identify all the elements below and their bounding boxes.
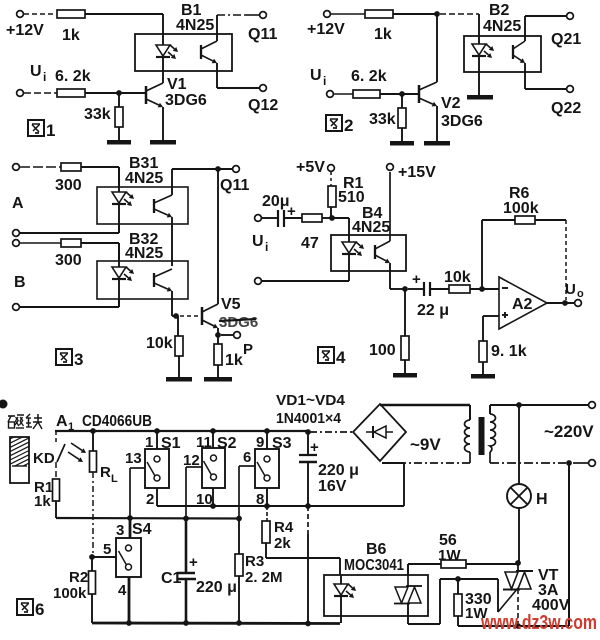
node Q11 junction (fig3) bbox=[215, 166, 221, 172]
svg-text:CD4066UB: CD4066UB bbox=[82, 413, 152, 430]
svg-text:U: U bbox=[310, 67, 322, 84]
wire B2 emitter to Q22 bbox=[525, 63, 566, 89]
wire feedback left leg bbox=[482, 220, 515, 289]
node Q11 terminal (fig3) bbox=[220, 166, 249, 194]
wire bridge minus to common bbox=[382, 463, 404, 506]
node S2 pin10 junction bbox=[210, 503, 216, 509]
wire primary top to 220V bbox=[490, 405, 588, 414]
node gate junction bbox=[455, 576, 461, 582]
svg-text:+15V: +15V bbox=[398, 164, 436, 181]
node P terminal bbox=[234, 332, 253, 358]
label magnet (citie) bbox=[8, 414, 42, 429]
wire B4 LED cathode return bbox=[262, 271, 349, 281]
LED inside B31 bbox=[112, 187, 134, 224]
node +12V terminal (fig2) bbox=[307, 11, 345, 38]
svg-text:2k: 2k bbox=[274, 535, 291, 552]
phototriac inside B6 bbox=[394, 564, 422, 604]
svg-text:KD: KD bbox=[33, 450, 55, 467]
node S1 top junction bbox=[154, 428, 160, 434]
svg-text:+5V: +5V bbox=[296, 159, 325, 176]
resistor R4 2k bbox=[262, 506, 294, 552]
label fig2 bbox=[326, 115, 353, 135]
svg-text:~220V: ~220V bbox=[544, 422, 594, 441]
node bridge plus junction bbox=[305, 429, 311, 435]
wire Ui to 20u cap bbox=[262, 217, 277, 219]
wire B6 pin6 to 56 bbox=[408, 564, 441, 575]
LED inside B1 bbox=[156, 34, 178, 71]
node B return terminal (fig3) bbox=[13, 304, 20, 311]
node R1/47 junction bbox=[329, 215, 335, 221]
node R3 bottom junction bbox=[236, 620, 242, 626]
optocoupler B32 4N25 box bbox=[97, 231, 188, 299]
capacitor 220u 16V bbox=[299, 432, 359, 495]
label fig4 bbox=[318, 347, 346, 367]
node B input terminal (fig3) bbox=[13, 240, 26, 291]
svg-text:A: A bbox=[56, 413, 68, 430]
photoresistor RL bbox=[68, 431, 118, 485]
wire R1 to lower rail bbox=[55, 501, 57, 518]
node pin5 junction bbox=[89, 554, 95, 560]
node C1 junction bbox=[183, 516, 189, 522]
phototransistor inside B32 bbox=[154, 269, 172, 292]
svg-text:L: L bbox=[111, 473, 118, 485]
node Ui terminal (fig4) bbox=[252, 215, 268, 254]
svg-text:+: + bbox=[412, 271, 421, 288]
switch S3 bbox=[243, 431, 292, 508]
wire +5V to R1 (dashed) bbox=[330, 172, 332, 187]
wire R2 to bottom bus bbox=[91, 594, 93, 623]
wire common line pins 2-10-8 bbox=[157, 505, 404, 507]
svg-text:Q11: Q11 bbox=[248, 26, 277, 43]
label fig3 bbox=[56, 349, 83, 369]
wire 47 to node bbox=[322, 217, 332, 219]
svg-text:16V: 16V bbox=[318, 478, 347, 495]
svg-text:22 μ: 22 μ bbox=[417, 302, 449, 319]
svg-text:4: 4 bbox=[336, 348, 346, 367]
svg-text:o: o bbox=[577, 288, 584, 300]
svg-text:220 μ: 220 μ bbox=[196, 579, 237, 596]
svg-text:10k: 10k bbox=[444, 269, 471, 286]
ground under 33k (fig1) bbox=[107, 127, 131, 145]
svg-text:3DG6: 3DG6 bbox=[441, 113, 483, 130]
wire B to R 300 lower bbox=[20, 242, 61, 244]
svg-text:11: 11 bbox=[196, 434, 212, 451]
svg-text:2: 2 bbox=[146, 491, 154, 508]
wire noninverting input to 9.1k bbox=[483, 316, 499, 341]
wire V5 emitter to node P bbox=[217, 328, 219, 335]
wire S3 pin6 bbox=[239, 466, 255, 518]
ground under B2 LED bbox=[467, 95, 493, 100]
svg-text:C1: C1 bbox=[161, 570, 182, 587]
resistor 56 1W bbox=[438, 532, 466, 568]
svg-text:+12V: +12V bbox=[6, 22, 44, 39]
resistor 300 upper (fig3) bbox=[55, 163, 82, 194]
svg-text:1k: 1k bbox=[225, 352, 243, 369]
wire 22u to 10k bbox=[430, 288, 449, 290]
optocoupler B2 4N25 box bbox=[464, 2, 541, 72]
svg-text:U: U bbox=[30, 63, 42, 80]
resistor 100 bbox=[369, 289, 409, 360]
node MT2 junction bbox=[515, 560, 521, 566]
wire 1k to B1 LED anode bbox=[85, 14, 163, 34]
svg-text:8: 8 bbox=[256, 491, 264, 508]
wire bridge top to transformer bbox=[380, 405, 470, 420]
wire cap to 47 bbox=[284, 217, 302, 219]
LED inside B6 bbox=[334, 575, 356, 616]
watermark bbox=[480, 612, 597, 634]
svg-text:3DG6: 3DG6 bbox=[165, 92, 207, 109]
ground under 100 bbox=[393, 360, 417, 378]
optocoupler B6 MOC3041 box bbox=[324, 541, 428, 616]
wire Q11 line bbox=[172, 168, 232, 170]
svg-text:i: i bbox=[43, 70, 46, 84]
node Ui return terminal (fig4) bbox=[255, 278, 262, 285]
node S2 top junction bbox=[210, 428, 216, 434]
wire KD to R1 bbox=[55, 462, 57, 479]
node Ui terminal (fig2) bbox=[310, 67, 333, 97]
wire gate to B6 node bbox=[458, 579, 498, 612]
node 220V bottom terminal bbox=[589, 460, 596, 467]
wire ground vertical bbox=[307, 506, 309, 623]
svg-text:510: 510 bbox=[338, 189, 365, 206]
svg-text:6. 2k: 6. 2k bbox=[351, 68, 387, 85]
svg-text:S2: S2 bbox=[217, 435, 237, 452]
svg-text:2. 2M: 2. 2M bbox=[245, 569, 283, 586]
capacitor C1 220u bbox=[161, 518, 237, 623]
svg-text:+12V: +12V bbox=[307, 21, 345, 38]
wire op-amp output to Uo bbox=[547, 302, 575, 304]
switch S1 bbox=[125, 431, 181, 508]
wire R4 to B6 LED bbox=[266, 543, 340, 575]
svg-text:1: 1 bbox=[145, 434, 153, 451]
node C1 bottom junction bbox=[183, 620, 189, 626]
svg-text:6: 6 bbox=[243, 449, 251, 466]
wire B32 LED cathode return bbox=[20, 299, 119, 307]
svg-text:5: 5 bbox=[103, 541, 111, 558]
svg-text:2: 2 bbox=[344, 116, 353, 135]
wire B2 LED cathode to ground bbox=[478, 72, 480, 95]
wire 6.2k to V2 base bbox=[380, 93, 418, 95]
svg-text:A: A bbox=[12, 195, 24, 212]
wire bridge bottom to transformer (dash-dot) bbox=[382, 452, 470, 463]
node Q21 terminal bbox=[551, 13, 581, 48]
wire B31 emitter to B32 collector bbox=[171, 217, 173, 266]
node +12V terminal (fig1) bbox=[6, 11, 44, 39]
svg-text:1N4001×4: 1N4001×4 bbox=[276, 410, 342, 427]
node right rail junction bbox=[566, 460, 572, 466]
svg-text:4N25: 4N25 bbox=[176, 17, 214, 34]
svg-text:3DG6: 3DG6 bbox=[219, 314, 258, 331]
resistor R6 100k bbox=[503, 185, 539, 224]
label VD1-VD4 bbox=[276, 392, 346, 409]
svg-text:220 μ: 220 μ bbox=[318, 462, 359, 479]
wire R1 to node bbox=[330, 207, 332, 218]
label 1N4001x4 bbox=[276, 410, 342, 427]
wire S4 pin4 to bottom bus bbox=[128, 577, 131, 623]
svg-text:U: U bbox=[565, 281, 576, 298]
svg-text:+: + bbox=[310, 439, 319, 456]
node base junction V1 bbox=[116, 90, 122, 96]
ground under 1k (fig3) bbox=[204, 365, 232, 382]
resistor 1k (fig2) bbox=[365, 10, 393, 43]
wire S1 pin2 bbox=[156, 488, 158, 506]
wire Ui to R 6.2k bbox=[24, 92, 57, 94]
wire +12V to R 1k (dashed) bbox=[24, 13, 56, 15]
svg-text:1k: 1k bbox=[34, 493, 51, 510]
wire bus to bridge (dash-dot) bbox=[310, 431, 352, 433]
node +15V terminal bbox=[387, 164, 437, 181]
wire lamp to triac MT2 bbox=[518, 508, 520, 561]
node Q12 terminal (fig1) bbox=[248, 85, 278, 114]
node inverting junction bbox=[479, 286, 485, 292]
svg-text:i: i bbox=[323, 74, 326, 88]
svg-text:i: i bbox=[265, 240, 268, 254]
resistor 33k (fig1) bbox=[84, 93, 123, 127]
svg-text:VD1~VD4: VD1~VD4 bbox=[276, 392, 346, 409]
svg-text:1W: 1W bbox=[438, 547, 461, 564]
svg-text:13: 13 bbox=[125, 450, 142, 467]
node collector junction V2 bbox=[434, 11, 440, 17]
svg-text:300: 300 bbox=[55, 177, 82, 194]
transistor V2 3DG6 bbox=[419, 82, 483, 130]
svg-text:33k: 33k bbox=[84, 106, 111, 123]
wire right rail bbox=[568, 463, 570, 626]
wire pin5 to S4 bbox=[92, 541, 116, 558]
svg-text:47: 47 bbox=[301, 235, 319, 252]
node Ui terminal (fig1) bbox=[17, 63, 47, 96]
svg-text:www.dz3w.com: www.dz3w.com bbox=[480, 612, 597, 634]
svg-text:100k: 100k bbox=[503, 200, 539, 217]
svg-text:4N25: 4N25 bbox=[125, 170, 163, 187]
wire 56 to MT2 node bbox=[466, 563, 516, 565]
svg-text:U: U bbox=[252, 233, 264, 250]
transistor V5 bbox=[202, 296, 258, 331]
svg-text:S1: S1 bbox=[161, 435, 181, 452]
svg-text:+: + bbox=[189, 554, 198, 571]
node R3 junction bbox=[236, 516, 242, 522]
wire V1 emitter to ground bbox=[162, 107, 164, 140]
wire 1k to collector node (fig2) bbox=[393, 13, 437, 15]
transistor V1 3DG6 bbox=[146, 76, 207, 109]
svg-text:Q22: Q22 bbox=[551, 100, 581, 117]
svg-text:100: 100 bbox=[369, 342, 396, 359]
stray mark left margin bbox=[0, 400, 8, 409]
optocoupler B1 4N25 box bbox=[135, 2, 232, 71]
wire 300 to B31 LED bbox=[81, 167, 119, 187]
resistor 9.1k bbox=[479, 341, 527, 362]
wire node to B4 LED bbox=[332, 218, 349, 235]
wire 6.2k to V1 base bbox=[85, 92, 145, 94]
node A return terminal (fig3) bbox=[13, 230, 20, 237]
svg-text:10k: 10k bbox=[146, 335, 173, 352]
resistor 300 lower (fig3) bbox=[55, 239, 82, 269]
wire S1 pin13 bbox=[130, 468, 145, 518]
wire V2 emitter to ground bbox=[436, 106, 438, 141]
node A input terminal (fig3) bbox=[12, 164, 24, 212]
node S4 pin3 junction bbox=[127, 515, 133, 521]
node output junction bbox=[562, 300, 568, 306]
label fig1 bbox=[28, 120, 55, 140]
wire node to B2 LED (dashed) bbox=[440, 14, 479, 36]
resistor 10k (fig4) bbox=[444, 269, 471, 293]
svg-text:1k: 1k bbox=[374, 26, 392, 43]
resistor 6.2k (fig1) bbox=[55, 68, 91, 97]
wire B4 collector to +15V bbox=[389, 172, 391, 241]
node S4 bottom junction bbox=[126, 620, 132, 626]
svg-text:S4: S4 bbox=[132, 521, 152, 538]
wire V2 collector to +12V node bbox=[436, 14, 438, 82]
phototransistor inside B31 bbox=[154, 195, 172, 218]
node MT1 junction bbox=[515, 623, 521, 629]
wire B31 collector to Q11 line bbox=[171, 169, 173, 195]
ground under 10k (fig3) bbox=[166, 356, 192, 382]
wire feedback right leg bbox=[535, 220, 566, 300]
svg-text:R: R bbox=[100, 464, 111, 481]
node 10k junction (fig3) bbox=[173, 313, 179, 319]
wire B2 collector to Q21 bbox=[525, 16, 566, 41]
node P junction bbox=[215, 332, 221, 338]
wire S2 pin10 bbox=[212, 488, 214, 506]
lamp H bbox=[507, 405, 548, 508]
svg-text:300: 300 bbox=[55, 252, 82, 269]
magnet bar bbox=[6, 427, 34, 487]
wire B6 LED cathode to bus bbox=[340, 616, 342, 623]
wire RL to pin5 node (dash-dot) bbox=[92, 472, 94, 557]
wire MT1 to right rail bbox=[520, 625, 569, 627]
svg-text:B6: B6 bbox=[366, 541, 387, 558]
ground under V2 emitter bbox=[424, 141, 450, 146]
node lamp junction bbox=[516, 402, 522, 408]
resistor 6.2k (fig2) bbox=[351, 68, 387, 98]
label fig6 bbox=[17, 599, 44, 619]
svg-text:33k: 33k bbox=[369, 111, 396, 128]
svg-text:9. 1k: 9. 1k bbox=[491, 343, 527, 360]
resistor 330 1W bbox=[454, 579, 492, 622]
node Q11 terminal (fig1) bbox=[248, 12, 277, 43]
switch S2 bbox=[183, 431, 237, 508]
wire A to R 300 upper bbox=[20, 166, 61, 168]
ground under 9.1k bbox=[471, 362, 495, 379]
triac VT 3A 400V bbox=[498, 563, 570, 623]
svg-text:B: B bbox=[14, 274, 26, 291]
svg-text:V1: V1 bbox=[167, 76, 187, 93]
wire dashed node to V5 base bbox=[180, 315, 201, 317]
node emitter junction (fig4) bbox=[402, 286, 408, 292]
svg-text:3: 3 bbox=[74, 350, 83, 369]
capacitor 22u bbox=[408, 271, 449, 319]
switch S4 bbox=[116, 518, 152, 599]
node ground vertical bottom junction bbox=[305, 621, 311, 627]
wire 10k to op-amp inverting input bbox=[470, 288, 499, 290]
svg-text:4N25: 4N25 bbox=[352, 219, 390, 236]
node base junction V2 bbox=[399, 91, 405, 97]
label A1 CD4066UB bbox=[56, 413, 152, 433]
svg-text:Q12: Q12 bbox=[248, 97, 278, 114]
svg-text:~9V: ~9V bbox=[410, 435, 441, 454]
wire B1 emitter to Q12 bbox=[217, 63, 259, 88]
svg-text:6: 6 bbox=[35, 600, 44, 619]
wire B1 LED cathode to V1 collector bbox=[162, 71, 164, 83]
optocoupler B4 4N25 box bbox=[331, 205, 406, 271]
resistor R1 510 bbox=[328, 175, 365, 207]
LED inside B2 bbox=[472, 36, 494, 72]
svg-text:100k: 100k bbox=[53, 585, 87, 602]
resistor 10k (fig3) bbox=[146, 316, 183, 356]
wire B32 emitter to node bbox=[172, 291, 176, 316]
svg-text:B2: B2 bbox=[489, 2, 510, 19]
node Uo terminal bbox=[565, 281, 584, 306]
node S3 pin8 junction bbox=[264, 503, 270, 509]
wire B1 collector to Q11 bbox=[217, 15, 259, 41]
node S3 top junction bbox=[264, 428, 270, 434]
phototransistor inside B2 bbox=[513, 41, 525, 63]
svg-text:4: 4 bbox=[118, 582, 127, 599]
ground under V1 emitter bbox=[150, 140, 176, 145]
svg-text:S3: S3 bbox=[272, 435, 292, 452]
wire 300 to B32 LED bbox=[81, 243, 119, 261]
resistor 47 bbox=[301, 214, 322, 252]
svg-text:MOC3041: MOC3041 bbox=[344, 557, 404, 574]
resistor 1k (fig1) bbox=[57, 10, 85, 44]
wire S3 pin8 bbox=[266, 488, 268, 506]
wire top bus bbox=[55, 430, 310, 432]
LED inside B4 bbox=[342, 235, 364, 271]
wire V5 collector to Q11 bbox=[217, 169, 219, 304]
LED inside B32 bbox=[112, 261, 134, 299]
node Q22 terminal bbox=[551, 86, 581, 117]
wire B4 emitter to node bbox=[390, 263, 405, 289]
phototransistor inside B1 bbox=[201, 41, 217, 63]
wire 330 to MT1 line bbox=[458, 616, 516, 626]
capacitor 20u bbox=[262, 193, 296, 227]
transformer T bbox=[465, 414, 496, 455]
op-amp A2 bbox=[499, 277, 547, 329]
svg-text:3: 3 bbox=[116, 522, 124, 539]
wire Ui to 6.2k (fig2) bbox=[334, 93, 353, 95]
svg-text:9: 9 bbox=[256, 434, 264, 451]
wire +12V to R 1k (fig2) bbox=[331, 13, 365, 15]
svg-text:R3: R3 bbox=[245, 553, 264, 570]
svg-text:R2: R2 bbox=[69, 569, 88, 586]
wire S2 pin12 bbox=[186, 467, 202, 518]
wire R1 lower rail bbox=[56, 517, 239, 520]
svg-text:4N25: 4N25 bbox=[125, 245, 163, 262]
bridge rectifier VD1-VD4 bbox=[353, 404, 406, 461]
svg-text:V5: V5 bbox=[221, 296, 241, 313]
node RL bus junction bbox=[90, 428, 96, 434]
wire to P terminal bbox=[221, 334, 233, 336]
svg-text:P: P bbox=[243, 341, 253, 358]
resistor 1k (fig3) bbox=[214, 335, 243, 369]
svg-text:6. 2k: 6. 2k bbox=[55, 68, 91, 85]
resistor R1 1k (fig6) bbox=[34, 479, 60, 510]
svg-text:A2: A2 bbox=[512, 296, 533, 313]
svg-text:4N25: 4N25 bbox=[483, 18, 521, 35]
svg-text:Q11: Q11 bbox=[220, 177, 249, 194]
svg-text:1: 1 bbox=[46, 121, 55, 140]
svg-text:R4: R4 bbox=[274, 519, 294, 536]
wire primary bottom to 220V bbox=[490, 452, 588, 463]
label ~9V bbox=[410, 435, 441, 454]
phototransistor inside B4 bbox=[375, 241, 390, 263]
wire B6 pin4 path bbox=[408, 579, 458, 624]
svg-text:Q21: Q21 bbox=[551, 31, 581, 48]
wire B31 LED cathode return bbox=[20, 224, 119, 233]
reed switch KD bbox=[33, 431, 65, 467]
svg-text:1k: 1k bbox=[62, 27, 80, 44]
svg-text:H: H bbox=[536, 491, 548, 508]
svg-text:20μ: 20μ bbox=[262, 193, 290, 210]
